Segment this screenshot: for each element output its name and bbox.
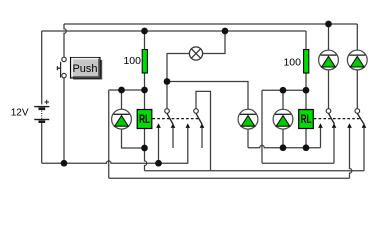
contact pivot 1a bbox=[165, 109, 170, 114]
contact 1b fixed contact left bbox=[186, 123, 191, 128]
junction contact 1a left to battery bus bbox=[155, 160, 162, 167]
wire battery bottom bbox=[41, 123, 43, 164]
wire bottom bus B2 bbox=[145, 170, 365, 172]
svg-text:100: 100 bbox=[283, 57, 301, 69]
contact 2a fixed contact right bbox=[332, 123, 337, 128]
wire contact2a-right riser bbox=[333, 128, 335, 164]
wire push-button drop with hop over W2 bbox=[64, 24, 66, 57]
wire LED3 bottom bbox=[247, 129, 249, 148]
contact blade 1a bbox=[167, 113, 173, 124]
junction RL2 top bbox=[303, 87, 310, 94]
wire bus B1b to contact2a-right bbox=[262, 162, 334, 164]
wire node A to LED3 bbox=[167, 82, 248, 110]
svg-text:RL: RL bbox=[139, 112, 150, 126]
wire contact2b-right riser bbox=[363, 128, 365, 171]
wire lamp left lead to pivot1a bbox=[167, 54, 189, 109]
wire LED4 leads bbox=[282, 90, 284, 148]
wire LED6 leads bbox=[356, 24, 358, 109]
dashed link RL1 to contacts bbox=[153, 118, 200, 120]
junction RL2 bottom bbox=[303, 144, 310, 151]
push button face bbox=[71, 58, 103, 80]
LED D1 bbox=[112, 109, 132, 129]
battery B1 12V bbox=[34, 100, 49, 122]
junction RL1 top bbox=[141, 87, 148, 94]
junction R1 top bbox=[141, 28, 148, 35]
contact blade 2a bbox=[329, 113, 335, 124]
wire relay coil RL2 leads bbox=[305, 90, 307, 148]
resistor R2 bbox=[304, 50, 309, 74]
wire LED5 leads bbox=[328, 24, 330, 109]
wire resistor R2 leads bbox=[305, 31, 307, 90]
junction LED D1 top bbox=[118, 87, 125, 94]
relay coil RL1 bbox=[137, 110, 152, 129]
lamp L1 bbox=[189, 47, 202, 60]
wire coil2 top bbox=[262, 89, 306, 91]
wire relay coil RL1 leads bbox=[144, 90, 146, 148]
wire LED1 leads bbox=[122, 90, 145, 148]
contact 1b fixed contact right bbox=[200, 123, 205, 128]
push switch SW1 terminal top bbox=[62, 57, 66, 61]
contact 2b fixed contact right bbox=[362, 123, 367, 128]
wire coil2 feed riser x=262 bbox=[261, 90, 263, 163]
contact pivot 2b bbox=[355, 109, 360, 114]
resistor R1 bbox=[142, 50, 147, 74]
wire pivot1b loop to B2 bbox=[196, 91, 211, 170]
junction RL1 bottom bbox=[141, 145, 148, 152]
svg-text:Push: Push bbox=[72, 63, 97, 75]
contact blade 2b bbox=[357, 113, 364, 124]
junction push button to battery bus bbox=[61, 160, 68, 167]
contact 2a fixed contact left bbox=[318, 123, 323, 128]
contact blade 1b bbox=[196, 113, 202, 124]
push switch SW1 terminal bottom bbox=[62, 73, 66, 77]
svg-text:12V: 12V bbox=[11, 108, 29, 119]
wire push button bottom lead bbox=[63, 78, 65, 163]
wire resistor R1 leads bbox=[144, 31, 146, 90]
wire contact1a-right stub bbox=[172, 128, 174, 148]
junction LED D3 top bbox=[280, 87, 287, 94]
wire top rail W1 bbox=[64, 23, 357, 25]
contact pivot 1b bbox=[194, 109, 199, 114]
contact 1a fixed contact left bbox=[156, 123, 161, 128]
junction LED top rail bbox=[325, 21, 332, 28]
junction node A bbox=[164, 78, 171, 85]
contact 2b fixed contact left bbox=[347, 123, 352, 128]
wire contact1b-right stub bbox=[201, 128, 203, 148]
wire coil1 bottom riser with hop over B1 bbox=[145, 148, 147, 171]
dashed link RL2 to contacts bbox=[314, 118, 360, 120]
relay coil RL2 bbox=[299, 110, 314, 129]
LED D3 bbox=[273, 109, 293, 129]
wire bottom bus B1 with hop over riser x=108.75 bbox=[42, 128, 188, 164]
wire coil1 top bbox=[109, 89, 145, 91]
wire coil2 bottom bus with hop over x=262 bbox=[248, 145, 321, 147]
LED D2 bbox=[238, 109, 258, 129]
svg-text:RL: RL bbox=[301, 112, 312, 126]
contact pivot 2a bbox=[326, 109, 331, 114]
wire battery top bbox=[41, 31, 43, 104]
wire bottom bus B3 bbox=[109, 177, 350, 179]
LED D5 bbox=[347, 50, 367, 70]
push switch plunger bbox=[60, 62, 62, 78]
wire supply rail W2 bbox=[42, 30, 306, 32]
wire contact2a-left riser bbox=[320, 128, 322, 148]
wire coil1 feed riser x=108.75 bbox=[108, 90, 110, 178]
wire contact2b-left riser with hop over B2 bbox=[350, 128, 352, 179]
LED D4 bbox=[319, 50, 339, 70]
contact 1a fixed contact right bbox=[171, 123, 176, 128]
wire contact1a-left riser bbox=[158, 128, 160, 164]
junction LED D3 bottom bbox=[280, 144, 287, 151]
wire lamp right lead bbox=[203, 31, 225, 54]
svg-text:100: 100 bbox=[123, 55, 141, 67]
junction lamp supply bbox=[222, 28, 229, 35]
